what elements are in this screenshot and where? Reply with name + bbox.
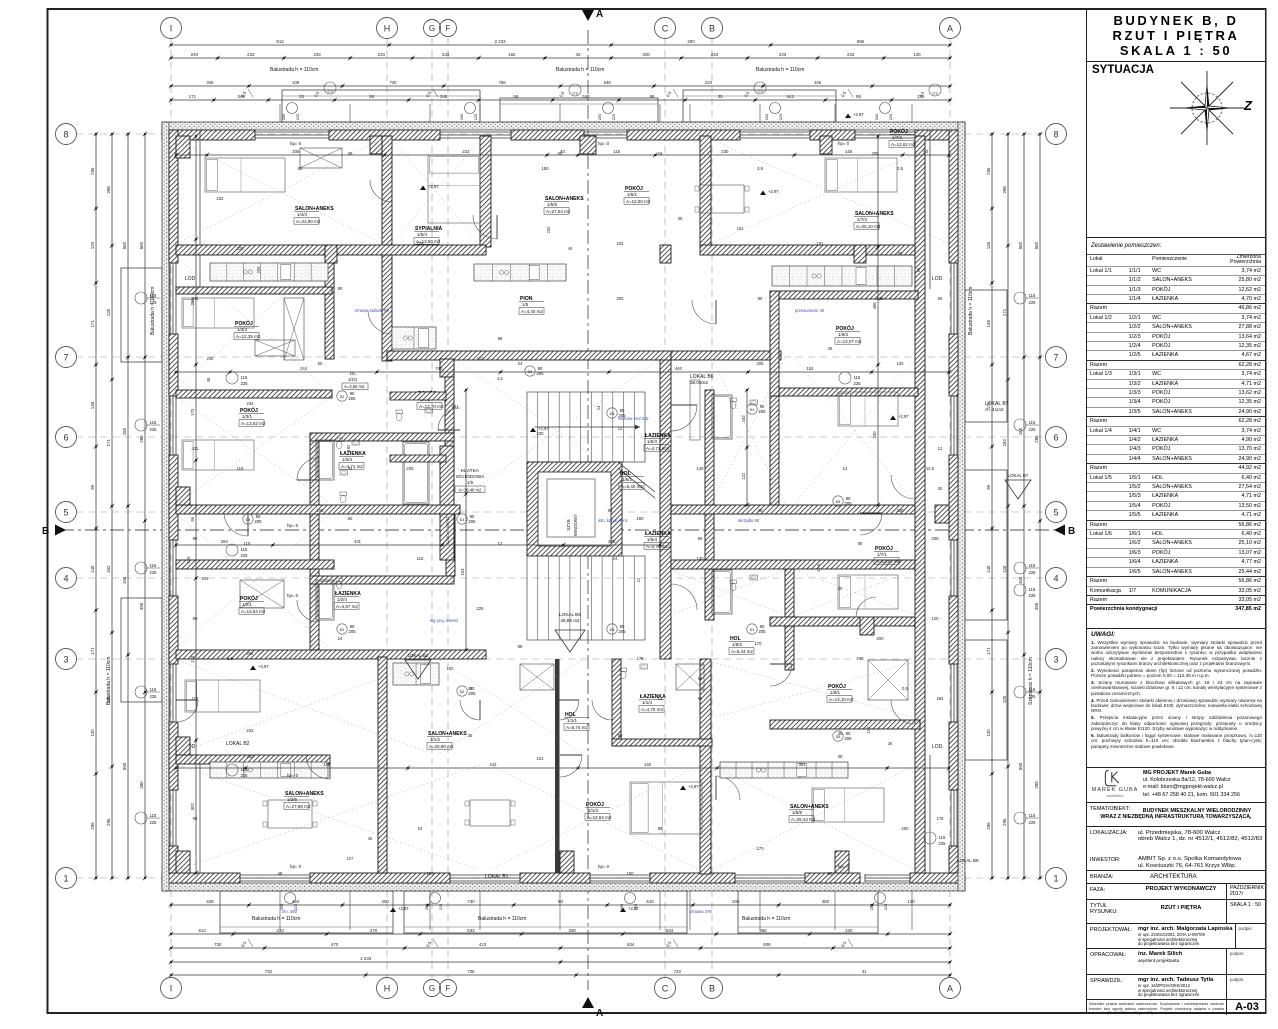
dimension chain [127,134,129,878]
svg-text:1/1/3: 1/1/3 [588,808,599,813]
kitchen upper-left [210,263,328,281]
toilet [336,438,343,442]
svg-text:H: H [384,983,391,993]
grid bubble G [424,980,441,997]
svg-text:Balustrada h = 110cm: Balustrada h = 110cm [106,657,112,705]
svg-text:232: 232 [216,196,224,201]
svg-text:48: 48 [206,377,211,382]
grid bubble 4 [56,568,77,589]
interior wall y720 right [770,720,920,729]
svg-text:115: 115 [241,767,248,772]
vertical dimension stub lines from top wall [279,104,281,122]
svg-text:150: 150 [627,871,635,876]
bed right wing2 [838,575,898,609]
svg-text:3: 3 [1053,654,1058,664]
projektowal row [1087,924,1265,949]
svg-text:232: 232 [617,241,625,246]
svg-text:88: 88 [828,871,833,876]
svg-text:96: 96 [986,484,991,489]
window size markers bottom wall [285,893,296,904]
svg-text:346: 346 [206,80,214,85]
svg-text:140: 140 [90,565,95,573]
window glazing in right wall [950,790,952,846]
grid bubble I [161,978,182,999]
dimension chain [877,136,879,505]
svg-text:171: 171 [90,320,95,328]
svg-text:1/2/4: 1/2/4 [337,597,348,602]
svg-text:171: 171 [986,647,991,655]
svg-text:115: 115 [244,541,251,546]
svg-text:171: 171 [90,647,95,655]
svg-text:230: 230 [207,356,215,361]
svg-text:155: 155 [122,427,127,435]
svg-text:120: 120 [897,361,905,366]
svg-text:280: 280 [139,435,144,443]
svg-text:230: 230 [546,226,551,234]
svg-text:+2,97: +2,97 [258,664,269,669]
window size markers top wall [287,103,298,114]
window glazing in bottom wall [240,874,310,876]
svg-text:115: 115 [1029,563,1036,568]
svg-text:170: 170 [190,408,195,416]
window glazing in bottom wall [590,874,650,876]
svg-text:642: 642 [787,94,795,99]
svg-text:170: 170 [756,846,764,851]
bathtub left block2 [316,580,334,620]
svg-text:120: 120 [986,729,991,737]
svg-text:B: B [1068,526,1075,537]
svg-text:135: 135 [986,241,991,249]
svg-text:50: 50 [938,486,943,491]
loggia interior line bottom-right [929,755,931,873]
svg-text:431: 431 [192,446,200,451]
svg-text:POKÓJ: POKÓJ [828,682,846,690]
svg-text:D3: D3 [610,628,615,632]
svg-text:512: 512 [276,39,284,44]
svg-text:130: 130 [913,52,921,57]
svg-text:470: 470 [331,942,339,947]
svg-text:D3: D3 [528,370,533,374]
opracowal row [1087,949,1265,975]
lokal triangle marker 2 [1005,480,1031,499]
svg-text:I: I [170,23,173,33]
svg-text:1/5/4: 1/5/4 [417,232,428,237]
dimension chain [1007,134,1009,878]
bed left mid2 [182,440,254,470]
svg-text:182: 182 [1002,439,1007,447]
interior wall x325 [325,245,334,359]
top wall pier [329,130,440,140]
interior wall x378 lower [378,657,387,873]
svg-text:361: 361 [799,762,807,767]
svg-text:48: 48 [568,246,573,251]
svg-text:120: 120 [876,296,884,301]
wardrobe lower mid [520,664,554,690]
svg-text:233: 233 [779,52,787,57]
svg-text:296: 296 [986,167,991,175]
exterior wall right stipple band [958,122,965,891]
bottom wall pier [520,873,590,883]
grid bubble 6 [56,427,77,448]
wall pier [580,136,596,154]
svg-text:230: 230 [537,431,545,436]
svg-text:171: 171 [1002,308,1007,316]
kitchen lower left [210,762,328,778]
svg-text:LOKAL B8: LOKAL B8 [957,858,979,863]
top wall pier [627,130,740,140]
dimension chain [176,767,949,769]
table lower left [268,800,312,828]
svg-text:A=6,40 m2: A=6,40 m2 [621,484,643,489]
svg-text:233: 233 [313,52,321,57]
svg-text:80: 80 [758,296,763,301]
svg-text:200: 200 [424,903,429,910]
svg-text:225: 225 [1029,820,1037,825]
svg-text:1/2/1: 1/2/1 [348,377,358,382]
svg-text:225: 225 [241,553,249,558]
svg-text:1/5: 1/5 [522,302,529,307]
svg-text:1/7/4: 1/7/4 [857,217,868,222]
grid bubble F [440,980,457,997]
svg-text:450: 450 [292,899,300,904]
svg-text:F: F [446,24,451,33]
bed room2 [428,155,480,223]
svg-text:225: 225 [438,904,443,911]
svg-text:88: 88 [608,508,613,513]
door [856,597,876,617]
svg-text:D2: D2 [340,628,345,632]
svg-text:966: 966 [759,928,767,933]
svg-text:przesuniecie 40: przesuniecie 40 [795,308,825,313]
svg-text:205: 205 [616,296,624,301]
grid bubble B [702,978,723,999]
svg-text:1/6/3: 1/6/3 [838,332,849,337]
svg-text:560: 560 [1018,762,1023,770]
grid bubble A [940,18,961,39]
vertical grid axis dashed lines [170,38,172,978]
svg-text:2 233: 2 233 [495,39,507,44]
kitchen corner lower-mid [393,663,439,685]
bathtub center [403,442,429,504]
svg-text:4: 4 [63,573,68,583]
left wall pier [169,334,178,396]
bed lower middle [630,782,702,834]
svg-text:hp= 0: hp= 0 [290,141,302,146]
svg-text:470: 470 [370,928,378,933]
svg-text:115: 115 [1029,420,1036,425]
svg-text:2 233: 2 233 [360,956,372,961]
interior wall x705 lower [705,513,714,620]
svg-text:24: 24 [658,151,663,156]
bathtub left block [316,440,334,480]
window glazing in left wall [169,263,171,334]
svg-text:+2,97: +2,97 [768,189,779,194]
svg-text:155: 155 [1018,576,1023,584]
svg-text:35: 35 [718,94,723,99]
dimension chain [111,134,113,878]
svg-text:Balustrada h = 110cm: Balustrada h = 110cm [252,916,300,922]
toilet [396,410,403,414]
svg-text:90: 90 [338,286,343,291]
balcony slab bottom right [738,891,878,933]
svg-text:B: B [42,526,49,537]
svg-text:hp= 0: hp= 0 [287,593,299,598]
svg-text:733: 733 [674,969,682,974]
svg-text:733: 733 [265,969,273,974]
svg-text:LOKAL B7: LOKAL B7 [1008,473,1029,478]
svg-text:zmiana stolarki 80: zmiana stolarki 80 [355,308,389,313]
washbasin [750,575,758,580]
svg-text:115: 115 [150,563,157,568]
svg-text:A=4,77 m2: A=4,77 m2 [646,544,668,549]
svg-text:155: 155 [1018,427,1023,435]
svg-text:D2: D2 [460,690,465,694]
window glazing in right wall [950,540,952,596]
svg-text:88: 88 [518,644,523,649]
door bath up [297,458,319,480]
wall pier [176,737,190,755]
top wall pier [511,130,584,140]
svg-text:205: 205 [348,629,356,634]
svg-text:LOD.: LOD. [932,744,944,750]
thin partition x555 lower block [555,659,560,873]
dimension chain [144,134,146,878]
svg-text:225: 225 [150,570,158,575]
svg-text:730: 730 [390,80,398,85]
svg-text:225: 225 [939,841,947,846]
compass rose [1164,65,1250,151]
svg-text:225: 225 [295,114,300,121]
svg-text:5: 5 [1053,507,1058,517]
svg-text:C3: C3 [572,91,578,96]
wall pier [854,245,866,263]
svg-text:D3: D3 [610,412,615,416]
svg-text:223: 223 [705,80,713,85]
inwestor row [1087,854,1265,871]
svg-text:hp= 0: hp= 0 [598,141,610,146]
svg-text:433: 433 [276,928,284,933]
svg-text:205: 205 [844,736,852,741]
svg-text:88: 88 [658,826,663,831]
svg-text:1/7/1: 1/7/1 [877,552,888,557]
svg-text:C3: C3 [932,91,938,96]
bed top-left [205,158,285,192]
svg-text:31: 31 [862,969,867,974]
window glazing in bottom wall [865,874,910,876]
sofa top middle [690,380,700,440]
svg-text:230: 230 [845,928,853,933]
svg-text:A=25,80 m2: A=25,80 m2 [429,744,454,749]
svg-text:225: 225 [150,427,158,432]
svg-text:88: 88 [698,676,703,681]
stair walk line upper [535,426,640,428]
dimension chain [176,371,949,373]
top wall pier [810,130,855,140]
svg-text:+2,97: +2,97 [398,906,409,911]
svg-text:3,5: 3,5 [227,656,234,661]
svg-text:348: 348 [206,899,214,904]
level markers [420,186,426,191]
balcony left lower [121,598,162,702]
svg-text:548: 548 [604,80,612,85]
svg-text:115: 115 [237,466,244,471]
interior wall y287 kitchen left [176,287,332,294]
dimension chain [746,390,748,505]
svg-text:244: 244 [192,296,200,301]
svg-text:740: 740 [435,366,443,371]
svg-text:6: 6 [1053,432,1058,442]
washbasin [352,440,360,445]
svg-text:POKÓJ: POKÓJ [836,324,854,332]
svg-text:1: 1 [63,873,68,883]
svg-text:170: 170 [754,641,762,646]
bottom wall pier [162,873,240,883]
svg-text:48: 48 [278,871,283,876]
svg-text:42: 42 [468,686,473,691]
svg-text:skrzydlo 90: skrzydlo 90 [738,518,760,523]
svg-text:115: 115 [1029,293,1036,298]
svg-text:730: 730 [467,899,475,904]
svg-text:C3: C3 [757,89,763,94]
svg-text:115: 115 [150,813,157,818]
svg-text:zmiana 478: zmiana 478 [690,909,712,914]
svg-text:225: 225 [633,904,638,911]
svg-text:145: 145 [845,149,853,154]
dimension chain [171,933,950,935]
svg-text:24: 24 [596,405,601,410]
svg-text:128: 128 [186,556,191,564]
dimension chain [171,904,950,906]
svg-text:24: 24 [338,636,343,641]
svg-text:A=27,88 m2: A=27,88 m2 [286,804,311,809]
bed lower-left [185,680,260,712]
ventilation shaft column [440,446,454,560]
window glazing in right wall [950,664,952,722]
left wall pier [169,846,178,873]
balcony slab bottom middle [404,891,687,933]
svg-text:3,5: 3,5 [497,376,503,381]
svg-text:162: 162 [477,356,485,361]
grid bubble 1 [56,868,77,889]
svg-text:696: 696 [857,39,865,44]
left wall pier [169,130,178,263]
svg-text:+2,97: +2,97 [853,112,864,117]
svg-text:348: 348 [440,94,448,99]
door corridor left [224,512,248,536]
interior wall y560 left [176,560,334,569]
dimension chain [171,974,950,976]
svg-text:107: 107 [866,726,871,734]
svg-text:200: 200 [687,39,695,44]
svg-text:16,5: 16,5 [926,466,935,471]
svg-text:12: 12 [618,426,623,431]
svg-text:633: 633 [467,928,475,933]
svg-text:Balustrada h = 110cm: Balustrada h = 110cm [478,916,526,922]
svg-text:1/7/2: 1/7/2 [892,135,903,140]
svg-text:3: 3 [63,654,68,664]
svg-text:98: 98 [856,94,861,99]
svg-text:LOKAL B1: LOKAL B1 [485,874,509,880]
svg-text:233: 233 [378,52,386,57]
svg-text:LOKAL B5: LOKAL B5 [559,612,581,617]
svg-text:36: 36 [368,836,373,841]
svg-text:120: 120 [106,308,111,316]
svg-text:LOKAL B2: LOKAL B2 [226,741,250,747]
svg-text:60: 60 [318,361,323,366]
svg-text:Balustrada h = 110cm: Balustrada h = 110cm [756,67,804,73]
interior wall x310 lower [310,513,319,650]
svg-text:171: 171 [106,439,111,447]
left wall pier [169,722,178,790]
svg-text:SZYB: SZYB [566,519,571,531]
grid bubble 5 [56,502,77,523]
svg-text:205: 205 [536,371,544,376]
svg-text:182: 182 [447,666,455,671]
svg-text:POKÓJ: POKÓJ [875,544,893,552]
svg-text:3,5: 3,5 [756,246,761,252]
svg-text:1/8/1: 1/8/1 [830,690,841,695]
grid bubble H [377,978,398,999]
svg-text:A=4,70 m2: A=4,70 m2 [641,707,663,712]
door right low [891,700,915,724]
svg-text:90: 90 [193,536,198,541]
svg-text:130: 130 [907,899,915,904]
svg-text:6: 6 [63,432,68,442]
svg-text:232: 232 [462,149,470,154]
svg-text:148: 148 [90,401,95,409]
svg-text:G: G [429,24,435,33]
branza row [1087,871,1265,884]
grid bubble 7 [1046,347,1067,368]
door bath low [297,600,319,622]
grid bubble A [940,978,961,999]
svg-text:140: 140 [986,565,991,573]
svg-text:1/9: 1/9 [467,480,474,485]
svg-text:225: 225 [150,694,158,699]
vertical dimension stub lines to bottom chains [279,891,281,930]
svg-text:42: 42 [576,52,581,57]
interior wall y560 right [671,560,915,569]
svg-text:120: 120 [90,241,95,249]
svg-text:7: 7 [1053,352,1058,362]
interior wall right corridor x915 [915,136,925,873]
svg-text:225: 225 [150,820,158,825]
svg-text:D5: D5 [836,735,841,739]
svg-text:244: 244 [247,401,255,406]
svg-text:A=12,62 m2: A=12,62 m2 [587,815,612,820]
interior wall y617 right [770,617,915,626]
wardrobe center-up [284,298,304,360]
svg-text:230: 230 [872,431,877,439]
uwagi notes [1087,629,1265,768]
svg-text:C3: C3 [327,89,333,94]
svg-text:45,85 m2: 45,85 m2 [560,618,580,623]
elevator car [547,479,595,537]
section axis line B-B [60,529,1060,531]
bottom copyright row with drawing number [1087,1000,1265,1015]
section axis line A-A [587,30,589,990]
kitchen upper-right [772,266,912,286]
svg-text:634: 634 [627,942,635,947]
svg-text:115: 115 [1029,813,1036,818]
svg-text:240: 240 [191,52,199,57]
door [460,700,480,720]
svg-text:296: 296 [90,822,95,830]
svg-text:90: 90 [193,816,198,821]
svg-text:60: 60 [348,516,353,521]
right wall pier [949,455,958,540]
svg-text:225: 225 [888,114,893,121]
